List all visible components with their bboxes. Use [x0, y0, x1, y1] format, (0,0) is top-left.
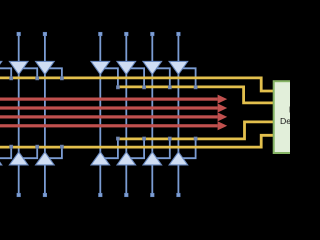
terminal square top column 1 — [17, 32, 21, 36]
svg-text:Decoder: Decoder — [280, 116, 290, 126]
diode D1 top column 1 — [9, 61, 28, 74]
junction top-left B — [36, 77, 39, 80]
junction bottom-right C — [168, 137, 171, 140]
red word line 3 with arrowhead — [0, 112, 227, 121]
wire bottom-right arm D — [178, 139, 195, 158]
diode D13 bottom column 6 — [169, 152, 188, 165]
red word line 4 with arrowhead — [0, 121, 227, 130]
junction top-right B — [143, 86, 146, 89]
diode D9 bottom column 2 — [36, 152, 55, 165]
diode D10 bottom column 3 — [91, 152, 110, 165]
wire bottom-right arm A — [100, 139, 118, 158]
diode D2 top column 2 — [36, 61, 55, 74]
diode D7 bottom (partial, off-screen column) — [0, 152, 2, 165]
wire column 1 — [18, 35, 20, 195]
junction top-left A — [10, 77, 13, 80]
junction bottom-right B — [143, 137, 146, 140]
diode D3 top column 3 — [91, 61, 110, 74]
wire column 5 — [151, 35, 153, 195]
wire column 3 — [99, 35, 101, 195]
yellow select line 4 (bottom outer) — [0, 135, 275, 147]
wire top-right arm D — [178, 68, 195, 87]
wire top-left arm C — [45, 68, 62, 78]
wire bottom-left arm A (from off-screen diode to first riser) — [0, 147, 11, 158]
terminal square bottom column 6 — [177, 193, 181, 197]
red word line 2 with arrowhead — [0, 104, 227, 113]
junction top-right C — [168, 86, 171, 89]
diode D11 bottom column 4 — [117, 152, 136, 165]
wire column 6 — [177, 35, 179, 195]
red word line 1 with arrowhead — [0, 95, 227, 104]
wire top-right arm C — [152, 68, 170, 87]
diode D5 top column 5 — [143, 61, 162, 74]
yellow select line 1 (top outer) — [0, 78, 275, 91]
terminal square top column 3 — [99, 32, 103, 36]
junction bottom-left C — [60, 145, 63, 148]
diode D4 top column 4 — [117, 61, 136, 74]
terminal square top column 5 — [151, 32, 155, 36]
wire bottom-right arm B — [126, 139, 144, 158]
terminal square bottom column 3 — [99, 193, 103, 197]
wire top-left arm A (from off-screen diode to first drop) — [0, 68, 11, 78]
yellow select line 2 (top inner) — [116, 87, 274, 103]
wire top-right arm B — [126, 68, 144, 87]
diode D6 top column 6 — [169, 61, 188, 74]
yellow select line 3 (bottom inner) — [116, 122, 274, 139]
terminal square top column 2 — [43, 32, 47, 36]
wire bottom-right arm C — [152, 139, 170, 158]
junction bottom-right D — [194, 137, 197, 140]
diode D12 bottom column 5 — [143, 152, 162, 165]
wire column 2 — [44, 35, 46, 195]
junction top-right D — [194, 86, 197, 89]
terminal square bottom column 2 — [43, 193, 47, 197]
wire top-left arm B — [19, 68, 38, 78]
terminal square top column 6 — [177, 32, 181, 36]
junction top-right A — [116, 86, 119, 89]
diode D0 top (partial, off-screen column) — [0, 61, 2, 74]
block U1 bus decoder — [274, 81, 319, 153]
wire column 4 — [125, 35, 127, 195]
terminal square bottom column 5 — [151, 193, 155, 197]
junction bottom-right A — [116, 137, 119, 140]
terminal square bottom column 4 — [125, 193, 129, 197]
terminal square bottom column 1 — [17, 193, 21, 197]
wire top-right arm A — [100, 68, 118, 87]
junction bottom-left B — [36, 145, 39, 148]
junction bottom-left A — [10, 145, 13, 148]
wire bottom-left arm B — [19, 147, 38, 158]
svg-text:Bus: Bus — [289, 105, 290, 115]
terminal square top column 4 — [125, 32, 129, 36]
junction top-left C — [60, 77, 63, 80]
diode D8 bottom column 1 — [9, 152, 28, 165]
wire bottom-left arm C — [45, 147, 62, 158]
